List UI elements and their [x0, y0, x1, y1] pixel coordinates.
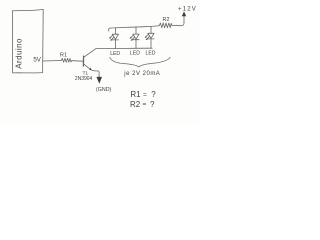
svg-text:R2: R2	[130, 100, 141, 109]
transistor T1 base bar	[82, 56, 84, 66]
svg-text:je 2V 20mA: je 2V 20mA	[123, 71, 160, 77]
svg-text:=: =	[143, 91, 147, 98]
svg-text:?: ?	[150, 100, 155, 109]
Arduino module box	[12, 9, 43, 73]
LED D2 anode stub	[135, 27, 137, 34]
LED D3 anode stub	[150, 26, 152, 33]
LED D2 light arrows	[131, 35, 135, 40]
wire: R1 to T1 base	[72, 60, 83, 63]
LED D3	[148, 33, 154, 38]
wire: LED anode top rail	[109, 26, 160, 31]
svg-text:LED: LED	[130, 51, 140, 57]
wire: emitter to ground arrow	[92, 70, 99, 77]
svg-text:LED: LED	[110, 51, 120, 57]
LED D1 anode stub	[114, 28, 116, 35]
svg-text:2N3904: 2N3904	[75, 76, 93, 82]
svg-text:Arduino: Arduino	[14, 38, 23, 69]
transistor T1 collector lead	[84, 49, 96, 58]
resistor R1	[61, 58, 72, 62]
svg-text:+12V: +12V	[178, 6, 197, 12]
transistor T1 emitter lead with arrow	[84, 64, 91, 69]
svg-text:(GND): (GND)	[96, 87, 112, 93]
wire: LED cathode rail (collector node)	[96, 47, 152, 49]
svg-text:=: =	[143, 101, 147, 108]
LED D2	[133, 34, 139, 39]
ground arrow (GND)	[96, 77, 102, 84]
svg-text:LED: LED	[146, 50, 156, 56]
wire: R2 to +12V supply	[172, 16, 184, 26]
LED D1 light arrows	[110, 35, 114, 40]
+12V supply arrow head	[182, 11, 186, 16]
underbrace for LED group	[110, 57, 171, 67]
svg-text:?: ?	[151, 90, 156, 99]
resistor R2	[159, 23, 172, 28]
wire: Arduino 5V pin to R1	[43, 60, 62, 63]
svg-text:R1: R1	[130, 90, 141, 99]
LED D3 light arrows	[146, 34, 150, 39]
svg-text:R1: R1	[60, 52, 67, 58]
svg-text:R2: R2	[163, 17, 170, 23]
LED D1	[112, 34, 118, 39]
svg-text:5V: 5V	[33, 56, 41, 63]
